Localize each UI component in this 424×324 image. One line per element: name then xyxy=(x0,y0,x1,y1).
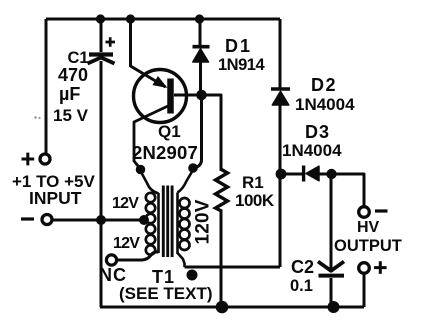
svg-text:15 V: 15 V xyxy=(53,106,89,125)
plus mark input xyxy=(22,153,35,166)
wire D3 right lead to minus output xyxy=(318,174,364,207)
diode D3 triangle xyxy=(306,166,319,181)
wire base to junction and R1 top lead xyxy=(174,95,221,171)
svg-text:12V: 12V xyxy=(113,235,140,252)
wire D1 bottom lead xyxy=(199,61,202,92)
wire C1 top lead xyxy=(100,19,103,52)
wire plus output lead xyxy=(363,274,366,307)
svg-text:0.1: 0.1 xyxy=(290,277,313,295)
plus mark output xyxy=(374,261,387,274)
capacitor C1 plus mark xyxy=(106,37,116,46)
junction dot top D1 xyxy=(195,14,204,23)
junction dot bottom R1 xyxy=(216,301,229,314)
wire R1 bottom lead xyxy=(220,210,223,308)
svg-text:OUTPUT: OUTPUT xyxy=(334,237,402,255)
wire secondary bottom return xyxy=(185,266,281,269)
svg-text:INPUT: INPUT xyxy=(29,188,82,208)
junction dot primary top pin xyxy=(136,165,146,175)
svg-text:D3: D3 xyxy=(305,122,330,142)
junction dot top emitter xyxy=(126,14,135,23)
wire D1 top lead xyxy=(199,19,202,46)
svg-text:Q1: Q1 xyxy=(158,122,181,141)
capacitor C2 plate curved top xyxy=(318,262,344,271)
svg-text:1N4004: 1N4004 xyxy=(282,141,342,160)
transistor Q1 collector line xyxy=(134,106,168,169)
junction dot secondary top pin xyxy=(188,163,198,173)
junction dot D3 C2 node xyxy=(326,169,336,179)
terminal minus output xyxy=(359,207,370,218)
wire C2 top lead xyxy=(330,175,333,269)
minus mark output xyxy=(375,209,388,212)
svg-text:C2: C2 xyxy=(291,257,314,277)
transistor Q1 base bar xyxy=(167,79,174,114)
wire D3 left lead xyxy=(281,173,302,176)
svg-text:470: 470 xyxy=(58,65,88,85)
svg-text:100K: 100K xyxy=(235,191,275,210)
junction dot bottom C2 xyxy=(328,301,340,313)
junction dot input C1 xyxy=(96,215,106,225)
svg-text:120V: 120V xyxy=(193,199,214,244)
transformer T1 core lines xyxy=(163,186,172,258)
transformer T1 primary top pin wire xyxy=(141,171,159,194)
diode D1 cathode bar xyxy=(193,45,210,49)
wire emitter lead from top rail xyxy=(131,19,166,87)
diode D1 triangle xyxy=(193,49,209,62)
wire D2 bottom lead to junction and down to secondary return xyxy=(279,105,282,267)
transformer T1 primary spine xyxy=(157,193,160,253)
transformer T1 secondary coil loops xyxy=(180,198,190,250)
junction dot secondary bottom pin xyxy=(187,270,198,281)
svg-text:HV: HV xyxy=(357,219,380,236)
wire C2 bottom lead xyxy=(330,278,333,307)
junction dot D2 D3 node xyxy=(276,169,287,180)
capacitor C1 plate negative curved xyxy=(88,58,115,64)
terminal minus input xyxy=(42,215,52,225)
wire left rail to + input xyxy=(45,19,48,154)
transformer T1 secondary bottom wire xyxy=(178,253,185,267)
transformer T1 secondary spine xyxy=(176,193,179,255)
terminal plus input xyxy=(40,154,50,164)
transformer T1 primary coil loops xyxy=(146,193,155,255)
capacitor C2 plate bottom xyxy=(319,274,345,278)
wire base junction to secondary top pin xyxy=(196,97,202,168)
diode D2 triangle xyxy=(272,91,289,105)
svg-text:12V: 12V xyxy=(112,195,139,212)
wire top rail xyxy=(46,18,280,21)
terminal NC xyxy=(106,255,116,265)
minus mark input xyxy=(21,217,34,220)
wire right rail D2 top lead xyxy=(279,19,282,88)
wire C1 bottom lead down to bottom rail xyxy=(100,61,103,307)
svg-text:2N2907: 2N2907 xyxy=(132,142,198,163)
svg-text:NC: NC xyxy=(99,265,127,285)
transistor Q1 emitter arrow xyxy=(153,77,166,87)
svg-text:R1: R1 xyxy=(242,173,264,192)
wire input minus to transformer center tap xyxy=(53,219,147,222)
terminal plus output xyxy=(359,263,370,274)
svg-text:(SEE TEXT): (SEE TEXT) xyxy=(119,284,213,303)
resistor R1 zigzag xyxy=(216,170,228,212)
diode D2 cathode bar xyxy=(271,87,290,91)
diode D3 cathode bar xyxy=(302,166,305,182)
svg-text:D2: D2 xyxy=(311,75,337,95)
junction dot top C1 xyxy=(96,14,105,23)
transistor Q1 circle xyxy=(134,70,187,123)
scan speck xyxy=(34,116,36,118)
capacitor C1 plate positive xyxy=(89,52,113,56)
wire NC to primary bottom xyxy=(117,252,159,260)
svg-text:1N914: 1N914 xyxy=(218,56,265,74)
svg-text:µF: µF xyxy=(59,84,80,104)
junction dot base node xyxy=(196,90,207,101)
svg-text:D1: D1 xyxy=(225,36,252,56)
junction dot center tap xyxy=(139,215,149,225)
wire bottom rail xyxy=(100,306,364,309)
svg-text:1N4004: 1N4004 xyxy=(295,95,355,114)
transformer T1 secondary top pin wire xyxy=(178,170,194,193)
